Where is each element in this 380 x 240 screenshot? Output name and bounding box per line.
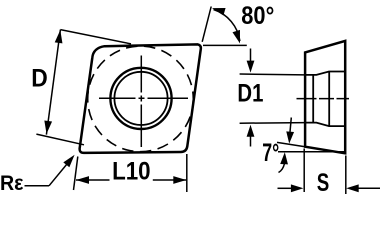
80-deg arc xyxy=(214,10,240,42)
S extension line left xyxy=(303,149,305,193)
D dimension arrow up xyxy=(55,30,63,43)
insert body outline (80-deg rhombus, top view) xyxy=(80,44,201,152)
svg-text:Rε: Rε xyxy=(0,172,24,195)
S extension line right xyxy=(345,156,347,195)
svg-text:7°: 7° xyxy=(262,139,279,167)
L10 dimension line left segment xyxy=(76,179,110,181)
L10 arrow right xyxy=(173,176,186,184)
7-deg slanted extension line xyxy=(277,142,305,146)
hole inner circle xyxy=(114,72,167,125)
7-deg arrow upper (stem + head) xyxy=(290,118,291,133)
side view outline xyxy=(305,41,345,153)
svg-text:D: D xyxy=(31,65,48,93)
R-epsilon leader diagonal xyxy=(49,160,70,185)
D1 extension line top xyxy=(240,73,306,76)
D dimension tangent line top xyxy=(60,30,131,44)
side view hole step vertical A xyxy=(312,75,314,123)
D1 extension line bottom xyxy=(240,122,306,125)
S arrow right (tail + head) xyxy=(358,187,380,189)
80-deg arc arrow lower xyxy=(233,30,241,44)
svg-text:L10: L10 xyxy=(112,157,151,185)
svg-text:D1: D1 xyxy=(237,80,263,108)
side view hole bottom profile xyxy=(305,123,344,127)
L10 extension line right xyxy=(186,154,188,192)
L10 arrow left xyxy=(76,176,89,184)
L10 dimension line right segment xyxy=(153,179,187,181)
L10 extension line left (slanted) xyxy=(74,157,78,191)
S arrow left (tail + head) xyxy=(278,187,293,189)
D1 arrow bottom (stem + head) xyxy=(250,136,252,147)
vertical centerline xyxy=(140,56,142,148)
horizontal centerline xyxy=(99,97,188,99)
D dimension tangent line bottom xyxy=(36,134,84,145)
side view centerline xyxy=(297,98,350,100)
hole outer circle xyxy=(110,68,171,129)
80-deg arc arrow upper xyxy=(212,8,226,15)
inscribed circle D (dashed) xyxy=(88,46,194,152)
80-deg extension line horizontal xyxy=(203,44,247,46)
R-epsilon leader horizontal xyxy=(25,185,50,187)
side view hole top profile xyxy=(305,72,344,75)
D dimension line xyxy=(46,30,60,135)
svg-text:80°: 80° xyxy=(241,2,274,30)
D1 arrow top (stem + head) xyxy=(250,49,252,63)
D dimension arrow down xyxy=(44,121,52,134)
7-deg arrow lower (head + curved tail) xyxy=(280,152,288,164)
side view hole step vertical B xyxy=(328,72,330,127)
R-epsilon arrow xyxy=(63,155,74,168)
7-deg horizontal reference line xyxy=(278,151,345,153)
80-deg extension line steep xyxy=(202,7,211,42)
svg-text:S: S xyxy=(317,169,330,196)
